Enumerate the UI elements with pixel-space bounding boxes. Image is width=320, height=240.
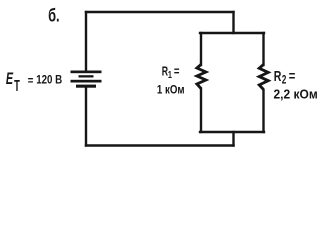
wire bottom horizontal <box>86 144 234 146</box>
svg-text:R: R <box>274 68 282 85</box>
svg-text:б.: б. <box>48 4 60 25</box>
wire R1 bottom lead <box>200 89 202 133</box>
wire inner top rail <box>200 32 264 34</box>
svg-text:1: 1 <box>168 70 172 81</box>
resistor R1 zigzag <box>197 65 206 89</box>
svg-text:120 В: 120 В <box>36 72 62 86</box>
wire R2 bottom lead <box>262 90 264 132</box>
wire left vertical (battery top lead) <box>85 12 87 70</box>
wire left vertical (battery bottom lead) <box>85 88 87 146</box>
wire top horizontal <box>86 11 234 13</box>
svg-text:2,2 кОм: 2,2 кОм <box>274 88 318 102</box>
svg-text:1 кОм: 1 кОм <box>157 82 185 96</box>
svg-text:=: = <box>174 64 180 78</box>
wire inner bottom rail <box>200 131 264 133</box>
svg-text:=: = <box>289 69 296 84</box>
wire R2 top lead <box>262 33 264 65</box>
svg-text:T: T <box>14 78 20 95</box>
wire R1 top lead <box>200 33 202 65</box>
wire right vertical bottom (return from parallel branch) <box>232 132 234 146</box>
svg-text:=: = <box>28 74 34 88</box>
resistor R2 zigzag <box>259 65 268 90</box>
svg-text:2: 2 <box>282 73 287 87</box>
wire right vertical top (feed to parallel branch) <box>232 12 234 33</box>
battery ET plates <box>71 71 102 88</box>
svg-text:E: E <box>6 70 14 88</box>
